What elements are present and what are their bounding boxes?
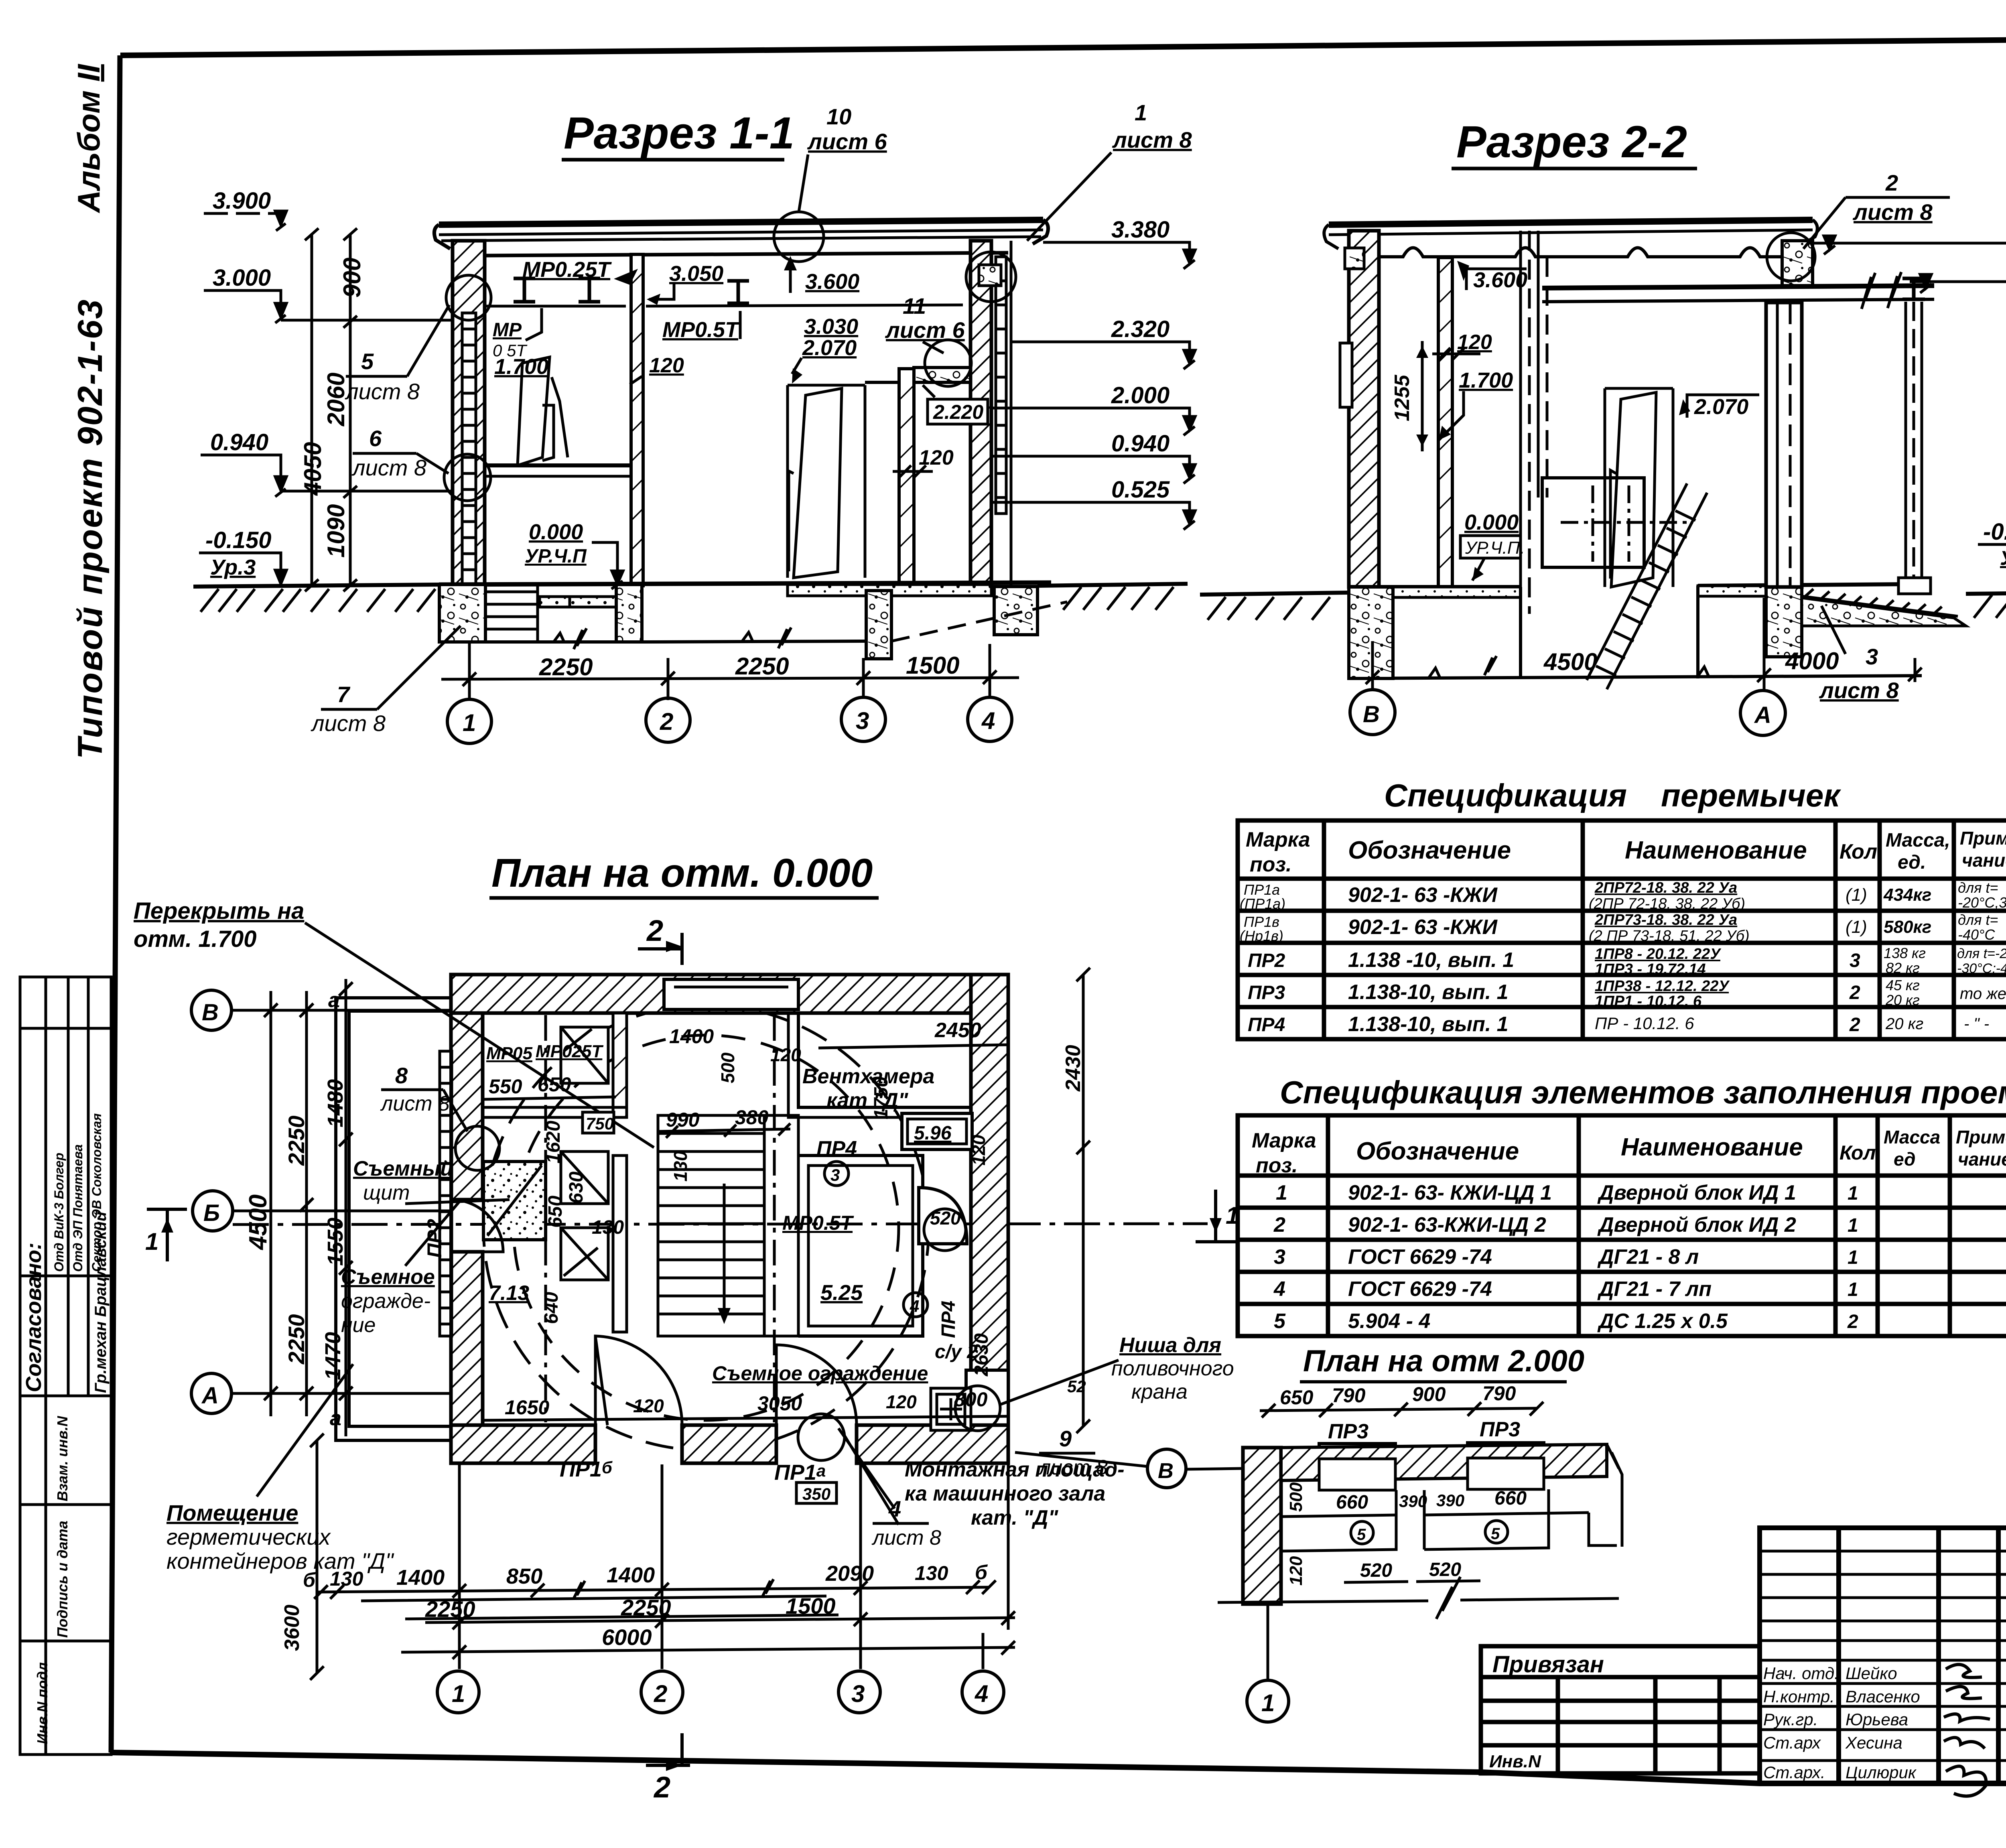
- svg-text:1.138 -10, вып. 1: 1.138 -10, вып. 1: [1348, 948, 1514, 972]
- svg-text:чание: чание: [1958, 1149, 2006, 1170]
- svg-text:А: А: [1754, 702, 1771, 728]
- svg-text:- " -: - " -: [1964, 1015, 1989, 1033]
- PR4 fan scroll: [919, 1188, 967, 1244]
- svg-text:2: 2: [1849, 982, 1860, 1003]
- monorail dash-dot lines: [544, 1015, 547, 1422]
- svg-text:ДС 1.25 х 0.5: ДС 1.25 х 0.5: [1597, 1310, 1728, 1333]
- svg-text:2630: 2630: [971, 1333, 992, 1377]
- svg-text:2: 2: [1885, 170, 1898, 195]
- bottom dims 4500 / 4000: [1366, 668, 1922, 684]
- svg-text:4050: 4050: [299, 442, 326, 496]
- svg-text:ДГ21 - 7 лп: ДГ21 - 7 лп: [1597, 1277, 1712, 1301]
- svg-text:чание: чание: [1962, 850, 2006, 871]
- svg-text:2430: 2430: [1062, 1045, 1085, 1092]
- svg-text:Шейко: Шейко: [1846, 1664, 1897, 1683]
- svg-text:Инв.N подл: Инв.N подл: [34, 1662, 51, 1744]
- svg-text:ПР4: ПР4: [816, 1137, 857, 1160]
- svg-text:Дверной блок ИД 2: Дверной блок ИД 2: [1597, 1213, 1796, 1237]
- ladder shaft strip on left wall: [440, 1051, 452, 1336]
- svg-text:3.900: 3.900: [213, 188, 271, 214]
- svg-text:герметических: герметических: [166, 1524, 331, 1549]
- callout circle niche: [955, 1386, 1000, 1431]
- callout circle on wall top: [446, 275, 491, 320]
- section cut 1 marks: [147, 1209, 187, 1261]
- svg-text:Юрьева: Юрьева: [1846, 1710, 1908, 1729]
- svg-text:Разрез 2-2: Разрез 2-2: [1456, 117, 1687, 167]
- svg-text:Гр.механ Брацлавский: Гр.механ Брацлавский: [92, 1212, 110, 1393]
- svg-text:А: А: [201, 1383, 219, 1409]
- svg-text:лист 6: лист 6: [885, 317, 965, 343]
- svg-text:ПР4: ПР4: [938, 1301, 959, 1338]
- svg-text:3.050: 3.050: [669, 262, 723, 286]
- svg-text:520: 520: [1360, 1560, 1392, 1581]
- inclined ladder to pit: [1587, 483, 1707, 689]
- svg-text:Обозначение: Обозначение: [1356, 1137, 1519, 1165]
- svg-text:850: 850: [506, 1564, 542, 1588]
- svg-text:лист 8: лист 8: [871, 1526, 941, 1549]
- svg-text:1400: 1400: [607, 1563, 655, 1587]
- svg-text:для t=: для t=: [1958, 912, 1998, 928]
- svg-text:3: 3: [830, 1166, 840, 1184]
- level leader lines into section: [1043, 241, 1106, 244]
- svg-text:1255: 1255: [1391, 374, 1414, 421]
- svg-text:перемычек: перемычек: [1661, 778, 1841, 813]
- svg-text:902-1- 63-КЖИ-ЦД 2: 902-1- 63-КЖИ-ЦД 2: [1348, 1213, 1546, 1237]
- svg-text:отм. 1.700: отм. 1.700: [134, 926, 257, 952]
- middle wall: [631, 254, 643, 586]
- bottom wall band left part: [451, 1425, 595, 1463]
- roof slab: [1329, 220, 1813, 225]
- svg-text:Власенко: Власенко: [1846, 1687, 1920, 1706]
- svg-text:для t=: для t=: [1958, 879, 1998, 896]
- svg-text:Привязан: Привязан: [1492, 1651, 1604, 1677]
- svg-text:1750: 1750: [871, 1076, 892, 1119]
- svg-text:Масса: Масса: [1884, 1127, 1940, 1147]
- svg-text:2: 2: [653, 1771, 670, 1804]
- svg-text:2.070: 2.070: [802, 336, 857, 360]
- svg-text:МР0.5Т: МР0.5Т: [782, 1212, 855, 1234]
- svg-text:Наименование: Наименование: [1621, 1133, 1803, 1161]
- svg-text:лист 8: лист 8: [351, 455, 426, 480]
- svg-text:поз.: поз.: [1250, 853, 1292, 876]
- svg-text:4: 4: [910, 1297, 919, 1316]
- svg-text:790: 790: [1332, 1384, 1366, 1407]
- bottom dimension line: [441, 678, 1019, 679]
- crane beam: [1542, 286, 1934, 288]
- right dim chain 2430: [1082, 975, 1085, 1426]
- svg-text:2250: 2250: [539, 654, 593, 680]
- svg-text:В: В: [1363, 701, 1380, 727]
- sanitary fixtures: [931, 1388, 971, 1430]
- leader from V circle to plan: [1186, 1468, 1243, 1469]
- svg-text:огражде-: огражде-: [341, 1290, 430, 1313]
- svg-text:120: 120: [886, 1391, 917, 1412]
- svg-text:Н.контр.: Н.контр.: [1763, 1687, 1835, 1706]
- walls: [1243, 1448, 1281, 1604]
- svg-text:Инв.N: Инв.N: [1489, 1752, 1541, 1771]
- svg-text:0.525: 0.525: [1111, 477, 1170, 503]
- svg-text:1470: 1470: [321, 1332, 345, 1380]
- svg-text:УР.Ч.П.: УР.Ч.П.: [1465, 538, 1525, 558]
- svg-text:-40°C: -40°C: [1958, 926, 1995, 943]
- grid circle 2: [646, 698, 690, 742]
- svg-text:990: 990: [666, 1109, 700, 1131]
- stairs block: [658, 1115, 798, 1336]
- svg-text:120: 120: [770, 1044, 801, 1065]
- svg-text:поливочного: поливочного: [1111, 1357, 1234, 1380]
- grid circle A left: [191, 1373, 231, 1413]
- svg-text:900: 900: [1412, 1383, 1446, 1405]
- svg-text:Взам. инв.N: Взам. инв.N: [54, 1415, 71, 1501]
- svg-text:2.070: 2.070: [1694, 395, 1748, 419]
- grid circle B left: [193, 1191, 233, 1231]
- machine platform edge: [798, 1156, 923, 1336]
- svg-text:0.940: 0.940: [210, 429, 268, 455]
- vent chamber partition: [798, 1013, 971, 1107]
- foundation footing right-middle: [866, 591, 891, 659]
- svg-text:902-1- 63 -КЖИ: 902-1- 63 -КЖИ: [1348, 883, 1498, 907]
- svg-text:то же: то же: [1960, 985, 2006, 1003]
- svg-text:лист 8: лист 8: [380, 1092, 450, 1115]
- svg-text:Ур 3: Ур 3: [2000, 547, 2006, 569]
- svg-text:20 кг: 20 кг: [1885, 992, 1920, 1008]
- door right room (2.070): [788, 385, 865, 578]
- svg-text:ГОСТ 6629 -74: ГОСТ 6629 -74: [1348, 1277, 1492, 1301]
- svg-text:2250: 2250: [735, 653, 789, 680]
- bottom wall band right part: [857, 1425, 1008, 1463]
- callout circle PR1a: [798, 1414, 845, 1460]
- svg-text:2: 2: [660, 708, 673, 735]
- svg-text:ПР2: ПР2: [1248, 950, 1285, 971]
- ladder shaft in left wall: [462, 313, 476, 590]
- svg-text:1.700: 1.700: [494, 355, 548, 379]
- svg-text:1ПР8 - 20.12. 22У: 1ПР8 - 20.12. 22У: [1595, 946, 1722, 963]
- svg-text:(ПР1а): (ПР1а): [1240, 896, 1285, 912]
- svg-text:(1): (1): [1846, 885, 1867, 905]
- svg-text:В: В: [1158, 1459, 1174, 1483]
- svg-text:1: 1: [1848, 1247, 1858, 1268]
- svg-text:2250: 2250: [284, 1115, 309, 1166]
- opening fillers specification table: [1238, 1074, 2006, 1336]
- ground line and hatch right: [1038, 584, 1188, 586]
- left dim chain 4500: [270, 991, 272, 1416]
- svg-text:Марка: Марка: [1246, 828, 1310, 851]
- svg-text:1550: 1550: [323, 1218, 347, 1266]
- vertical dim chain inner: [349, 234, 352, 585]
- svg-text:138 кг: 138 кг: [1884, 945, 1926, 961]
- svg-text:План на отм 2.000: План на отм 2.000: [1303, 1344, 1584, 1378]
- svg-text:0.940: 0.940: [1111, 431, 1169, 457]
- svg-text:План на отм. 0.000: План на отм. 0.000: [491, 851, 873, 896]
- svg-text:750: 750: [586, 1114, 614, 1133]
- svg-text:380: 380: [735, 1106, 769, 1129]
- svg-text:1: 1: [1135, 100, 1147, 125]
- svg-text:1500: 1500: [906, 652, 959, 679]
- svg-text:Рук.гр.: Рук.гр.: [1763, 1710, 1818, 1729]
- svg-text:1: 1: [1848, 1183, 1858, 1204]
- svg-text:Кол.: Кол.: [1840, 1141, 1881, 1164]
- svg-text:для t=-20°: для t=-20°: [1957, 946, 2006, 961]
- svg-text:Ур.3: Ур.3: [210, 555, 256, 579]
- svg-text:1: 1: [1276, 1181, 1287, 1204]
- svg-text:крана: крана: [1131, 1380, 1188, 1403]
- svg-text:1ПР1 - 10.12. 6: 1ПР1 - 10.12. 6: [1595, 993, 1702, 1010]
- svg-text:Подпись и дата: Подпись и дата: [54, 1521, 71, 1638]
- svg-text:500: 500: [1286, 1482, 1306, 1512]
- right wall: [971, 241, 991, 586]
- svg-text:1: 1: [463, 709, 476, 736]
- svg-text:1: 1: [1848, 1279, 1858, 1300]
- level line under monorails: [485, 305, 626, 308]
- grid circle 2 bottom: [641, 1671, 683, 1713]
- svg-text:520: 520: [1429, 1559, 1461, 1580]
- svg-text:3050: 3050: [757, 1392, 802, 1415]
- vertical dim chain outer: [311, 234, 313, 585]
- svg-text:Обозначение: Обозначение: [1348, 837, 1511, 864]
- electrical panel (semny shchit): [483, 1162, 546, 1240]
- svg-text:3.030: 3.030: [804, 315, 858, 339]
- vent shaft walls: [1521, 231, 1547, 614]
- svg-text:-30°C;-40°C: -30°C;-40°C: [1957, 961, 2006, 976]
- svg-text:630: 630: [566, 1172, 587, 1204]
- svg-text:1: 1: [1848, 1215, 1858, 1236]
- annex walls: [336, 998, 451, 1440]
- svg-text:1ПР38 - 12.12. 22У: 1ПР38 - 12.12. 22У: [1595, 978, 1730, 995]
- svg-text:лист 8: лист 8: [1819, 678, 1899, 703]
- svg-text:2250: 2250: [284, 1314, 309, 1365]
- svg-text:Съемное ограждение: Съемное ограждение: [712, 1362, 928, 1385]
- svg-text:6: 6: [369, 426, 382, 451]
- svg-text:-0.150: -0.150: [1983, 519, 2006, 545]
- grid stems down: [459, 1464, 1008, 1669]
- svg-text:3.000: 3.000: [213, 265, 271, 291]
- svg-text:Отд ВиК-3 Болгер: Отд ВиК-3 Болгер: [52, 1153, 66, 1272]
- svg-text:ед: ед: [1894, 1149, 1916, 1170]
- ground hatch left of building: [1200, 593, 1349, 595]
- A axis wall: [1766, 303, 1802, 587]
- svg-text:660: 660: [1336, 1492, 1368, 1513]
- svg-text:лист 8: лист 8: [1038, 1456, 1108, 1479]
- callout circle right wall top: [966, 252, 1016, 302]
- svg-text:МР: МР: [493, 319, 522, 341]
- section mark 2 bottom: [646, 1733, 690, 1765]
- foundation footing left: [439, 585, 485, 642]
- label 3.600 boxed: [1466, 269, 1527, 290]
- svg-text:Типовой проект 902-1-63: Типовой проект 902-1-63: [71, 299, 110, 759]
- svg-text:650: 650: [545, 1196, 566, 1228]
- inner ledge: [1281, 1513, 1617, 1545]
- svg-text:1400: 1400: [396, 1566, 445, 1590]
- svg-text:Приме-: Приме-: [1956, 1127, 2006, 1147]
- right mezzanine slab: [914, 368, 971, 382]
- door swing PR2 on left wall: [451, 1200, 503, 1252]
- svg-text:390: 390: [1436, 1491, 1464, 1510]
- svg-text:2: 2: [1273, 1213, 1285, 1237]
- svg-text:5: 5: [1491, 1525, 1500, 1543]
- svg-text:660: 660: [1494, 1488, 1527, 1509]
- svg-text:Нач. отд.: Нач. отд.: [1763, 1664, 1839, 1683]
- svg-text:350: 350: [802, 1484, 830, 1503]
- signatures squiggles: [1946, 1665, 1982, 1699]
- svg-text:Вентхамера: Вентхамера: [802, 1065, 934, 1088]
- svg-text:(2ПР 72-18. 38. 22 Уб): (2ПР 72-18. 38. 22 Уб): [1589, 896, 1745, 912]
- grid circle 1 bottom: [437, 1671, 479, 1713]
- svg-text:1.700: 1.700: [1459, 368, 1513, 392]
- lintel specification table: [1238, 778, 2006, 1039]
- crane coverage dashed circle: [483, 1005, 929, 1450]
- svg-text:130: 130: [670, 1151, 691, 1182]
- right room partition wall: [899, 369, 914, 586]
- svg-text:1400: 1400: [669, 1025, 714, 1048]
- svg-text:лист 8: лист 8: [345, 379, 420, 404]
- section 1-1 cut line through plan: [233, 1224, 1208, 1225]
- svg-text:2.220: 2.220: [933, 401, 983, 423]
- monorail I-beams: [514, 278, 749, 303]
- floor line: [1349, 584, 1906, 587]
- frame top border: [120, 35, 2006, 55]
- dashed excavation line right: [891, 602, 1067, 641]
- svg-text:Ст.арх: Ст.арх: [1763, 1733, 1821, 1752]
- footing under A wall: [1766, 587, 1802, 657]
- frame left border: [111, 55, 120, 1753]
- svg-text:2250: 2250: [425, 1596, 475, 1622]
- grid circle 4: [968, 697, 1012, 741]
- svg-text:2.000: 2.000: [1111, 382, 1169, 408]
- svg-text:Спецификация элементов запо: Спецификация элементов заполнения проемо…: [1280, 1074, 2006, 1110]
- svg-text:130: 130: [330, 1568, 363, 1590]
- svg-text:Цилюрик: Цилюрик: [1846, 1763, 1917, 1782]
- svg-text:лист 8: лист 8: [1852, 199, 1933, 225]
- svg-text:лист 6: лист 6: [807, 129, 887, 154]
- privyazan box: [1481, 1646, 1760, 1773]
- svg-text:2: 2: [1849, 1014, 1860, 1036]
- svg-text:130: 130: [592, 1217, 624, 1238]
- svg-text:1: 1: [145, 1228, 158, 1255]
- svg-text:ед.: ед.: [1898, 852, 1926, 873]
- beam break marks: [1862, 272, 1901, 309]
- svg-text:-0.150: -0.150: [205, 527, 271, 553]
- svg-text:(1): (1): [1846, 917, 1867, 937]
- svg-text:1650: 1650: [505, 1396, 549, 1419]
- footing under left wall: [1349, 587, 1393, 678]
- svg-text:ПР - 10.12. 6: ПР - 10.12. 6: [1595, 1014, 1694, 1033]
- svg-text:120: 120: [649, 354, 684, 377]
- dim 1255 rotated: [1421, 341, 1424, 451]
- svg-text:ПР3: ПР3: [1248, 982, 1285, 1003]
- svg-text:5.96: 5.96: [914, 1123, 952, 1144]
- basement stairs: [485, 592, 538, 629]
- svg-text:Съемный: Съемный: [353, 1157, 453, 1180]
- svg-text:1500: 1500: [786, 1593, 836, 1619]
- niche in right wall: [966, 1370, 1008, 1434]
- svg-text:11: 11: [903, 293, 926, 319]
- svg-text:Хесина: Хесина: [1845, 1733, 1902, 1752]
- floor line: [439, 583, 1051, 585]
- svg-text:390: 390: [1399, 1492, 1427, 1511]
- svg-text:520: 520: [930, 1208, 961, 1229]
- break zigzag: [1436, 1577, 1460, 1619]
- svg-text:790: 790: [1482, 1382, 1516, 1405]
- callout circle 8: [455, 1126, 499, 1170]
- svg-text:4: 4: [981, 707, 995, 734]
- svg-text:Приме-: Приме-: [1960, 828, 2006, 849]
- hatched band on slope: [1805, 589, 1942, 614]
- svg-text:кат. "Д": кат. "Д": [971, 1506, 1059, 1529]
- svg-text:10: 10: [826, 104, 851, 129]
- svg-text:Помещение: Помещение: [166, 1500, 298, 1525]
- svg-text:4000: 4000: [1785, 648, 1839, 674]
- ground hatch right: [1966, 593, 2006, 594]
- svg-text:8: 8: [395, 1063, 408, 1088]
- svg-text:902-1- 63- КЖИ-ЦД 1: 902-1- 63- КЖИ-ЦД 1: [1348, 1181, 1552, 1204]
- svg-text:2060: 2060: [323, 373, 349, 426]
- svg-text:20 кг: 20 кг: [1885, 1015, 1923, 1033]
- svg-text:800: 800: [954, 1388, 988, 1411]
- foundation footing middle: [616, 585, 642, 642]
- left dim chain 2250/2250: [305, 991, 308, 1416]
- svg-text:9: 9: [1059, 1426, 1072, 1451]
- svg-text:650: 650: [538, 1073, 571, 1096]
- svg-text:В: В: [202, 999, 219, 1026]
- left wall: [453, 241, 485, 586]
- lintel plates above wall: [1319, 1444, 1395, 1459]
- svg-text:2: 2: [1847, 1311, 1858, 1332]
- svg-text:поз.: поз.: [1256, 1154, 1298, 1177]
- svg-text:4500: 4500: [244, 1194, 272, 1251]
- svg-text:900: 900: [339, 258, 365, 298]
- grid circle V left: [191, 990, 231, 1030]
- right I-column: [1906, 302, 1922, 584]
- svg-text:а: а: [328, 989, 340, 1012]
- svg-text:МР0.5Т: МР0.5Т: [662, 318, 740, 342]
- dim 3600 rotated: [316, 1440, 319, 1673]
- svg-text:ПР3: ПР3: [1480, 1418, 1520, 1441]
- dim extension stems: [469, 642, 990, 700]
- svg-text:кат "Д": кат "Д": [826, 1089, 909, 1112]
- door leaf centerline: [1610, 470, 1616, 579]
- bottom line: [1218, 1598, 1619, 1602]
- svg-text:6000: 6000: [602, 1625, 652, 1650]
- svg-text:120: 120: [968, 1135, 989, 1166]
- svg-text:7: 7: [337, 682, 351, 707]
- left wall of main building: [451, 1013, 483, 1200]
- svg-text:3: 3: [856, 707, 869, 734]
- svg-text:45 кг: 45 кг: [1886, 977, 1920, 993]
- svg-text:Б: Б: [203, 1200, 220, 1226]
- foundation footing right: [994, 587, 1038, 635]
- svg-text:434кг: 434кг: [1883, 885, 1931, 905]
- ribbed plate underside: [1379, 248, 1784, 257]
- svg-text:1.138-10, вып. 1: 1.138-10, вып. 1: [1348, 1013, 1509, 1036]
- svg-text:550: 550: [489, 1075, 522, 1098]
- svg-text:3600: 3600: [280, 1604, 304, 1651]
- svg-text:Наименование: Наименование: [1625, 837, 1807, 864]
- svg-text:3: 3: [851, 1680, 865, 1707]
- svg-text:Альбом II: Альбом II: [71, 64, 106, 213]
- svg-text:лист 8: лист 8: [311, 711, 386, 736]
- grid circle A: [1740, 690, 1785, 735]
- svg-text:7.13: 7.13: [489, 1281, 529, 1305]
- svg-text:580кг: 580кг: [1884, 917, 1931, 937]
- svg-text:3.600: 3.600: [805, 270, 859, 294]
- frame bottom border: [111, 1753, 2006, 1783]
- svg-text:1: 1: [1261, 1690, 1275, 1716]
- partition horizontal below vent units: [483, 1107, 627, 1117]
- callout circle on wall bottom: [444, 454, 491, 501]
- svg-text:1480: 1480: [323, 1079, 347, 1127]
- svg-text:4: 4: [975, 1680, 988, 1707]
- svg-text:Отд ЭП Понятаева: Отд ЭП Понятаева: [71, 1144, 85, 1272]
